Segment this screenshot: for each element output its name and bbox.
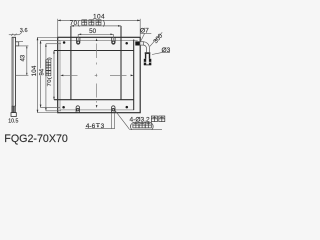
hole dot bottom-left <box>62 106 65 109</box>
svg-text:4-6: 4-6 <box>86 123 96 130</box>
callout 4-diameter3.2 through mounting holes <box>115 110 165 130</box>
label diameter 3 with leader <box>152 47 171 55</box>
dim 104 horizontal <box>58 14 141 37</box>
callout 4-6 depth 3 counterbore <box>85 113 115 130</box>
dim 50 slot pitch horizontal <box>78 28 113 40</box>
dim 70 (luminous face) vertical <box>46 51 55 100</box>
front view inner lip <box>60 40 138 110</box>
side view: panel profile <box>12 37 15 112</box>
front view outer frame <box>58 37 141 112</box>
svg-text:Ø7: Ø7 <box>140 28 149 35</box>
mounting slot bottom-right <box>112 106 115 113</box>
svg-text:Ø3: Ø3 <box>162 47 171 54</box>
hole dot bottom-right <box>126 106 129 109</box>
luminous window 70x70 <box>54 26 134 100</box>
svg-text:94: 94 <box>39 68 46 75</box>
dim 43 cable exit position <box>16 42 29 76</box>
front view right inner wall <box>133 40 135 111</box>
svg-text:): ) <box>152 123 154 130</box>
svg-text:10.5: 10.5 <box>8 118 18 124</box>
cable gland stub <box>140 42 144 45</box>
svg-text:3.6: 3.6 <box>20 28 28 34</box>
dim 94 vertical <box>39 41 60 108</box>
svg-text:): ) <box>103 21 105 27</box>
dim 104 vertical <box>31 37 58 112</box>
dim chain vertical slot pitch <box>45 44 61 111</box>
dim 3.6 profile thickness <box>9 28 28 36</box>
svg-text:3: 3 <box>101 123 105 130</box>
svg-text:43: 43 <box>21 54 27 61</box>
svg-text:50: 50 <box>89 28 96 35</box>
side view: bottom hatch section <box>12 106 16 113</box>
cable gland nut <box>135 41 140 45</box>
side view: cable gland tab <box>16 42 19 46</box>
svg-text:FQG2-70X70: FQG2-70X70 <box>4 133 68 145</box>
mounting slot top-right <box>112 37 115 44</box>
label 300 cable length with leader <box>150 32 165 46</box>
hole dot top-left <box>63 41 66 44</box>
side view: bottom foot block <box>11 113 16 117</box>
svg-text:): ) <box>47 57 53 59</box>
connector plug <box>144 52 152 65</box>
hole dot top-right <box>125 42 128 45</box>
svg-text:70(: 70( <box>47 77 53 87</box>
label diameter 7 with leader <box>140 28 151 41</box>
centerline vertical <box>96 38 98 108</box>
dim 70 (luminous face) horizontal <box>70 20 121 27</box>
mounting slot top-left <box>77 37 80 44</box>
svg-text:104: 104 <box>31 65 38 76</box>
centerline horizontal <box>60 75 133 77</box>
svg-text:70(: 70( <box>70 21 80 27</box>
mounting slot bottom-left <box>76 106 79 113</box>
cable elbow <box>144 42 150 53</box>
